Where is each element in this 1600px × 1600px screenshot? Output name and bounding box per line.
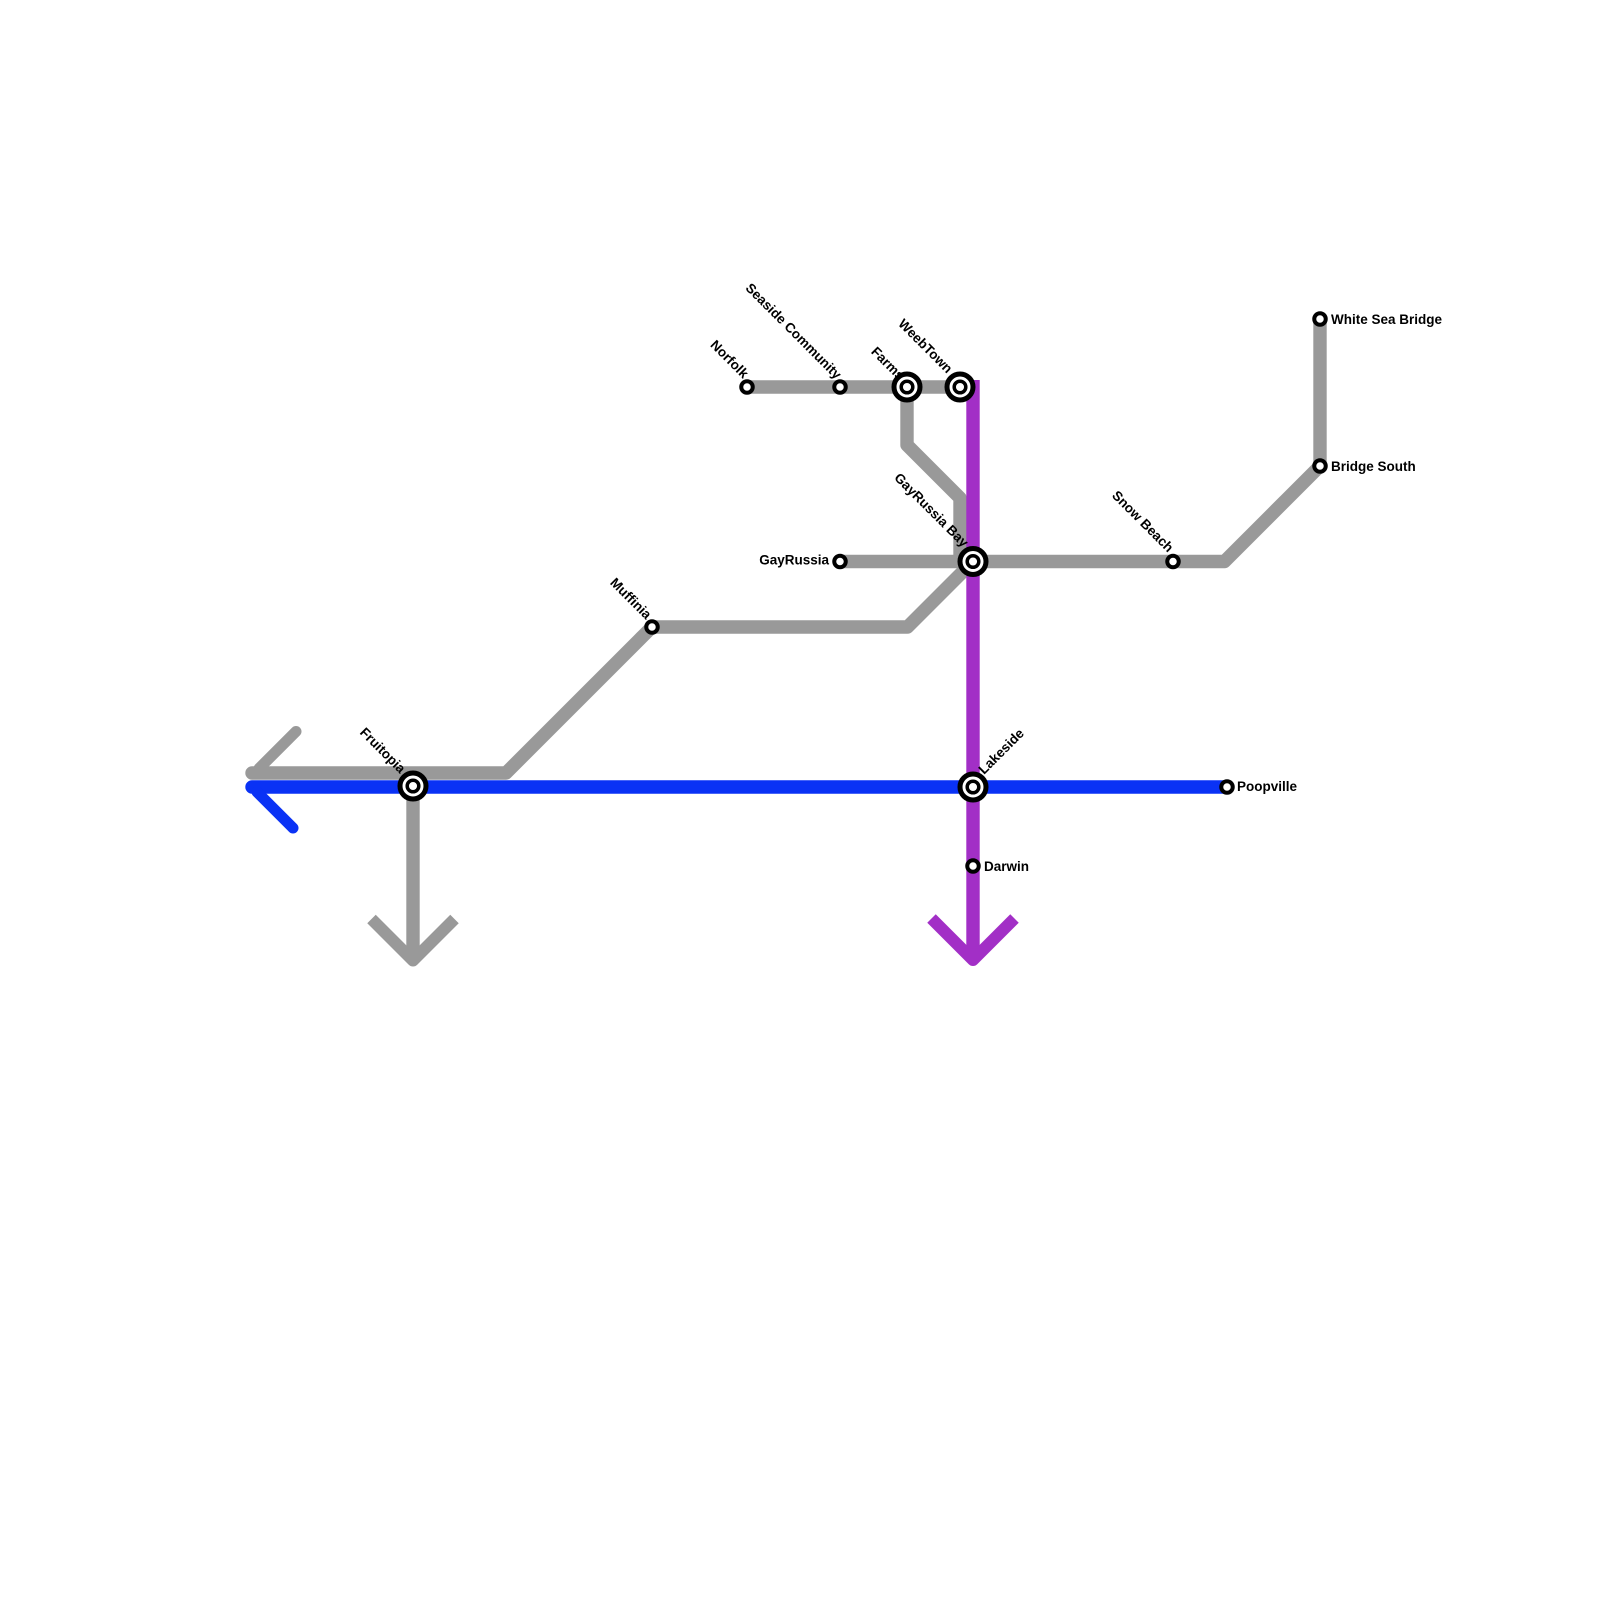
svg-text:GayRussia: GayRussia — [759, 553, 829, 568]
wire: gray line GayRussia-WhiteSeaBridge — [840, 319, 1320, 562]
wire: gray line Farms-GayRussiaBay — [907, 387, 960, 562]
node: station White Sea Bridge — [1314, 313, 1326, 325]
svg-text:White Sea Bridge: White Sea Bridge — [1331, 312, 1443, 327]
wire: gray line Fruitopia-south-arrow shaft — [406, 786, 419, 955]
wire: blue line west-arrow-Poopville — [252, 780, 1227, 793]
gray west half-arrowhead — [259, 732, 296, 769]
node: station Snow Beach — [1167, 556, 1179, 568]
node: station GayRussia — [834, 556, 846, 568]
node: station Muffinia — [646, 621, 658, 633]
wire: gray line west-arrow-Muffinia-GayRussiaBay — [252, 562, 973, 774]
node: interchange GayRussia Bay — [960, 549, 986, 575]
node: interchange Fruitopia — [400, 773, 426, 799]
node: interchange WeebTown — [947, 374, 973, 400]
node: interchange Lakeside — [960, 774, 986, 800]
node: station Poopville — [1221, 781, 1233, 793]
svg-text:Darwin: Darwin — [984, 859, 1029, 874]
node: station Norfolk — [741, 381, 753, 393]
node: interchange Farms — [894, 374, 920, 400]
blue west half-arrowhead — [257, 792, 293, 828]
node: station Seaside Community — [834, 381, 846, 393]
svg-text:Bridge South: Bridge South — [1331, 459, 1416, 474]
svg-text:Poopville: Poopville — [1237, 779, 1298, 794]
wire: gray line Norfolk-WeebTown — [747, 380, 960, 393]
node: station Darwin — [967, 860, 979, 872]
gray south arrowhead — [372, 919, 455, 961]
node: station Bridge South — [1314, 460, 1326, 472]
wire: purple line WeebTown-south-arrow shaft — [966, 380, 979, 955]
purple south arrowhead — [932, 919, 1015, 961]
